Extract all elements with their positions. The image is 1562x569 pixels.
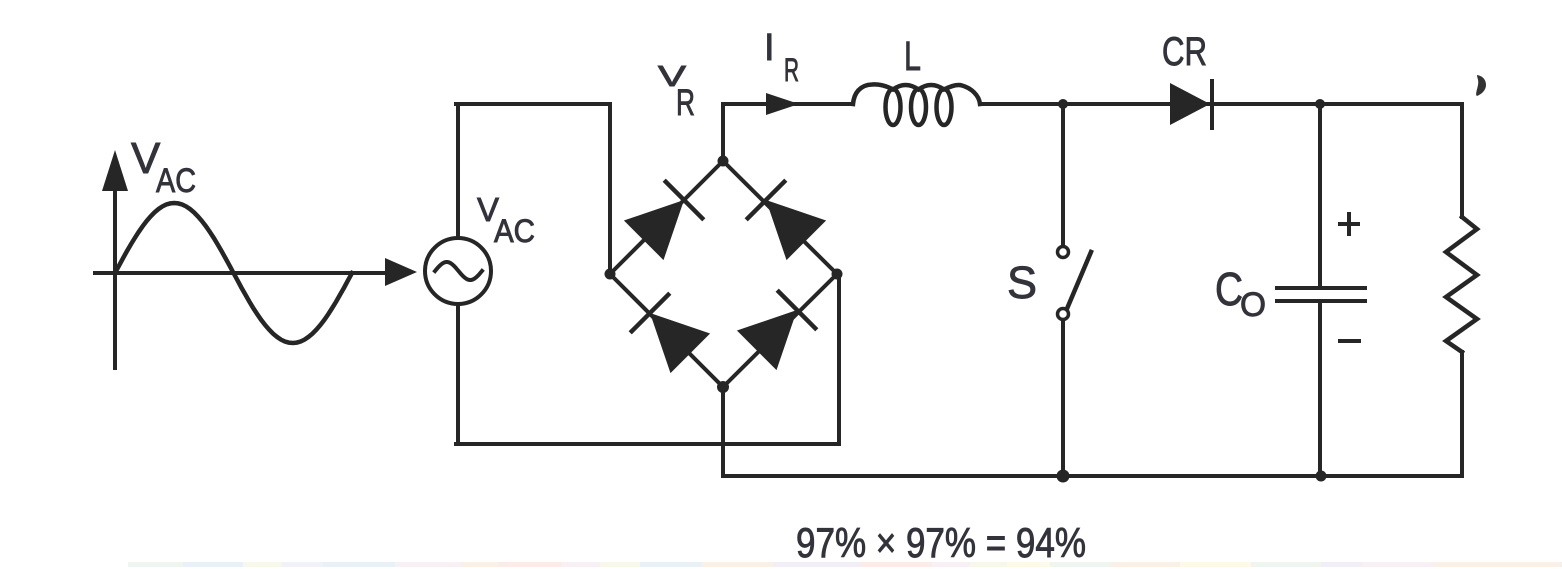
svg-text:O: O xyxy=(1240,286,1266,324)
svg-text:R: R xyxy=(784,52,799,88)
svg-text:S: S xyxy=(1007,257,1037,308)
svg-text:C: C xyxy=(1215,263,1243,315)
svg-text:AC: AC xyxy=(156,162,196,200)
svg-text:L: L xyxy=(904,33,921,79)
svg-text:R: R xyxy=(676,82,695,123)
svg-text:AC: AC xyxy=(494,213,535,249)
svg-text:97% × 97% = 94%: 97% × 97% = 94% xyxy=(796,519,1086,566)
svg-text:CR: CR xyxy=(1162,30,1207,74)
svg-text:I: I xyxy=(764,27,775,69)
